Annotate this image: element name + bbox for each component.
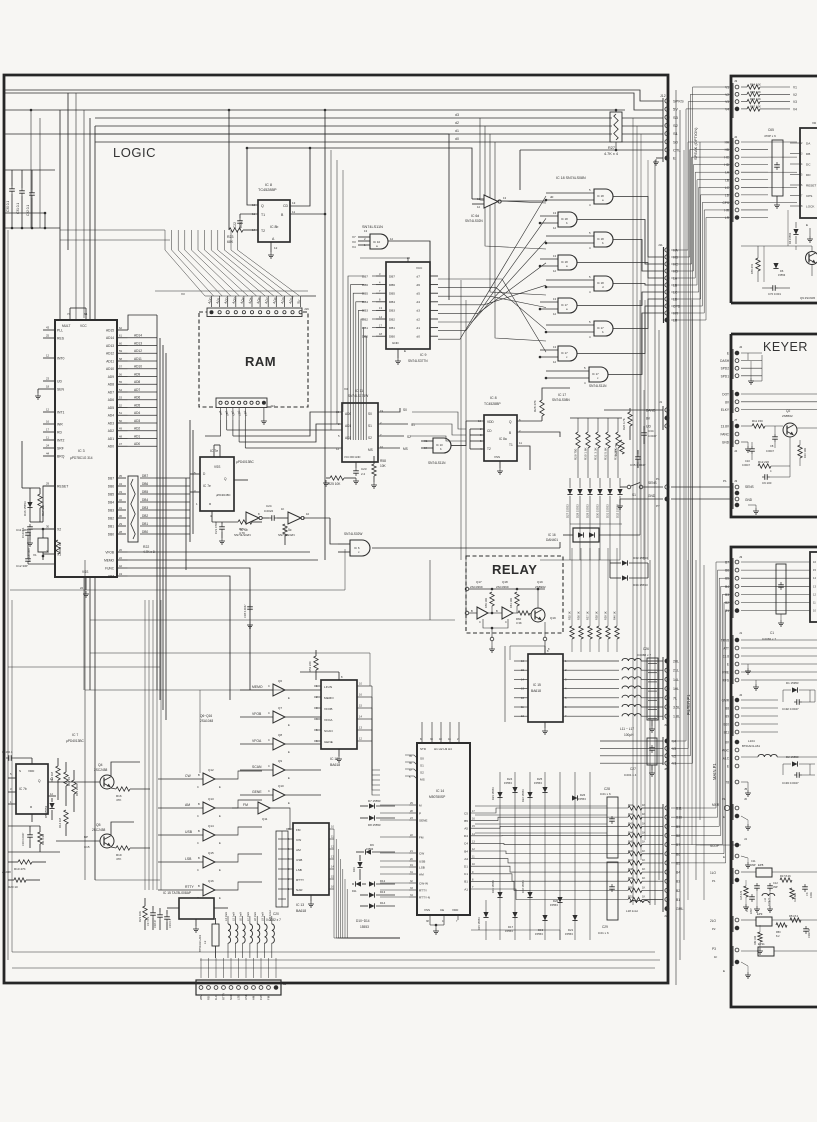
svg-text:E: E	[806, 223, 808, 227]
svg-text:PRE: PRE	[722, 671, 729, 675]
connector pin ALC	[735, 756, 739, 760]
svg-text:V4: V4	[672, 740, 676, 744]
wire SCOP run	[700, 844, 741, 846]
inductor L6 1mH	[243, 924, 246, 943]
svg-text:FM: FM	[243, 803, 248, 807]
wire diode bottom bus	[569, 524, 571, 560]
wire gate inputs	[546, 324, 594, 326]
svg-text:SPEAK (OPTION): SPEAK (OPTION)	[693, 127, 698, 160]
connector J3 pin B6	[665, 852, 669, 856]
ground RAM J17 pin	[263, 408, 265, 418]
svg-text:IC 15 TA78L008AP: IC 15 TA78L008AP	[163, 891, 192, 895]
wire top bus SPKS	[4, 90, 663, 101]
svg-text:39P: 39P	[751, 863, 756, 867]
svg-text:BT01AN1-A61: BT01AN1-A61	[742, 744, 760, 748]
svg-text:C13 0.1: C13 0.1	[2, 750, 13, 754]
wire IC12 pin GENE	[314, 740, 321, 742]
svg-text:S1: S1	[368, 424, 372, 428]
wire vertical x229 to R23	[228, 110, 230, 230]
svg-text:R39 1K: R39 1K	[604, 611, 608, 620]
svg-text:d1: d1	[455, 129, 459, 133]
gate IC 18a	[558, 255, 577, 270]
svg-text:Q6~Q16: Q6~Q16	[200, 714, 212, 718]
wire IC3 pin PLL	[43, 329, 55, 331]
svg-text:E: E	[219, 868, 221, 872]
diode D20 15553	[557, 897, 562, 903]
op IC13 BA618 box	[293, 823, 329, 895]
svg-text:E: E	[288, 696, 290, 700]
wire Q10 output	[285, 794, 321, 796]
wire IC15 left pin	[514, 669, 528, 671]
ground IC8 A	[270, 242, 272, 252]
connector RAM bottom pin	[231, 401, 234, 404]
svg-text:M: M	[419, 803, 422, 807]
svg-text:RTTY: RTTY	[419, 888, 427, 892]
svg-text:AD9: AD9	[108, 375, 114, 379]
wire diode matrix verticals	[499, 772, 501, 940]
wire IC3 pin INT1	[43, 411, 55, 413]
wire IC15 right pin	[563, 706, 619, 708]
svg-text:D1 15953: D1 15953	[786, 681, 799, 685]
ground P3	[741, 962, 748, 966]
svg-text:E: E	[219, 841, 221, 845]
wire S0 to IC8a	[412, 412, 466, 429]
svg-text:1K: 1K	[642, 867, 645, 871]
gate IC10b	[433, 438, 451, 453]
wire gate output	[608, 313, 663, 375]
inductors L11-L17	[622, 658, 641, 661]
svg-text:RTTY: RTTY	[296, 878, 304, 882]
svg-text:VFOA: VFOA	[252, 739, 262, 743]
svg-text:1K: 1K	[642, 849, 645, 853]
wire IC13 pin CW	[286, 838, 293, 840]
diode D34 15553	[622, 575, 628, 580]
svg-text:CW: CW	[296, 838, 301, 842]
svg-text:AD9: AD9	[134, 372, 140, 376]
wire cap bus bottom	[4, 227, 60, 229]
svg-text:L10 1mH: L10 1mH	[268, 910, 272, 921]
svg-text:B11: B11	[676, 807, 682, 811]
wire IC3 pin AD15	[117, 329, 128, 331]
svg-text:SCAN: SCAN	[324, 729, 333, 733]
svg-text:0.0047: 0.0047	[648, 434, 657, 438]
svg-text:C: C	[268, 789, 270, 793]
resistor R29	[577, 418, 579, 432]
svg-text:RTTY-N: RTTY-N	[419, 895, 430, 899]
resistor R39 1K	[607, 548, 609, 626]
svg-text:R46: R46	[628, 849, 633, 853]
wire IC3 pin AD4	[117, 414, 128, 416]
svg-text:22: 22	[80, 586, 84, 590]
wire J2 pin stub	[741, 201, 768, 203]
svg-text:C1B 0.0047: C1B 0.0047	[243, 604, 247, 618]
svg-text:B10: B10	[723, 723, 729, 727]
wire IC3 pin DB0	[117, 533, 126, 535]
svg-text:J2: J2	[734, 135, 738, 139]
connector J12 pin SPKS	[665, 99, 669, 103]
svg-text:IC 17: IC 17	[558, 393, 566, 397]
connector J9 pin 28L	[665, 659, 669, 663]
svg-text:d3: d3	[455, 113, 459, 117]
svg-text:DB5: DB5	[142, 490, 148, 494]
wire IC11 S0 out	[378, 408, 400, 412]
wire crystal nets	[27, 538, 29, 556]
wire IC14 pin LSB	[409, 866, 417, 868]
svg-text:IC 8a: IC 8a	[499, 437, 507, 441]
svg-text:C: C	[268, 764, 270, 768]
svg-text:MS: MS	[420, 778, 425, 782]
wire IC3 pin AD5	[117, 407, 128, 409]
svg-text:D10~D14: D10~D14	[356, 919, 370, 923]
svg-text:AD8: AD8	[108, 383, 114, 387]
ground IC3 VSS	[85, 591, 87, 594]
wire IC14 pin A5	[470, 826, 530, 828]
svg-text:15553: 15553	[505, 929, 513, 933]
svg-text:D23 15553: D23 15553	[491, 787, 495, 800]
svg-text:DB5: DB5	[108, 492, 114, 496]
transistor Q12	[203, 773, 215, 785]
svg-text:R14 1M: R14 1M	[58, 818, 62, 828]
svg-text:0.01 x 6: 0.01 x 6	[600, 792, 611, 796]
svg-text:R15 470: R15 470	[740, 890, 743, 900]
svg-text:E: E	[404, 349, 406, 353]
connector J2 pin	[237, 986, 241, 990]
wire gate inputs	[540, 258, 558, 260]
wire vertical left bus x90	[89, 118, 91, 690]
connector RAM top pin 5V	[299, 311, 302, 314]
svg-text:R97 10K: R97 10K	[750, 104, 761, 108]
wire IC3 pin AD13	[117, 345, 128, 347]
svg-text:11: 11	[292, 210, 295, 214]
board MAIN unit outline	[731, 547, 817, 1007]
wire bus y134	[4, 134, 449, 300]
svg-text:R25 10K: R25 10K	[328, 482, 341, 486]
ground keyer sens	[748, 504, 756, 506]
diode D7 15553	[369, 803, 375, 808]
resistor R30	[587, 418, 589, 432]
svg-text:B: B	[198, 884, 200, 888]
svg-text:Q9 2SC945: Q9 2SC945	[800, 296, 815, 300]
capacitor C8 0.0047	[774, 434, 776, 437]
svg-text:1K: 1K	[642, 885, 645, 889]
svg-text:L3: L3	[203, 940, 207, 944]
capacitor C22 0.001	[239, 218, 241, 221]
wire C24 net	[262, 517, 269, 519]
resistor R59 10K	[490, 592, 494, 606]
wire Q8 output	[285, 743, 321, 745]
svg-text:VCC: VCC	[416, 266, 423, 270]
wire gap vertical extra	[683, 150, 685, 940]
gate IC 17c	[558, 346, 577, 361]
svg-text:CD: CD	[283, 204, 289, 208]
svg-text:C: C	[197, 841, 199, 845]
diode D14 15553	[369, 903, 375, 908]
capacitor C12 39P	[769, 883, 771, 886]
wire IC11 inputs	[227, 429, 342, 431]
wire Q5 base	[56, 840, 100, 842]
svg-text:SRF: SRF	[57, 447, 64, 451]
svg-text:D30 15553: D30 15553	[596, 504, 600, 518]
ground IC14	[435, 928, 437, 931]
ground C65	[776, 196, 778, 202]
svg-text:2SC3399: 2SC3399	[496, 585, 509, 589]
wire gate output	[613, 197, 663, 258]
svg-text:STD: STD	[420, 747, 427, 751]
resistor R18 680	[790, 888, 794, 899]
svg-text:d0: d0	[417, 335, 421, 339]
wire gate input diagonal fan	[438, 196, 546, 339]
svg-text:1K: 1K	[642, 895, 645, 899]
wire a-input fan	[480, 118, 546, 203]
svg-text:15553: 15553	[504, 781, 512, 785]
wire IC14 pin P	[409, 812, 417, 814]
wire IC9 pin DB7	[376, 275, 386, 277]
svg-text:Q15: Q15	[208, 851, 214, 855]
svg-text:C20: C20	[273, 912, 279, 916]
wire RTTY input	[158, 889, 203, 891]
wire bottom bus x12	[12, 951, 240, 953]
svg-text:17: 17	[46, 428, 50, 432]
svg-text:L9 1mH: L9 1mH	[261, 912, 265, 921]
svg-text:INT1: INT1	[57, 411, 64, 415]
gate IC4b SN74LS02N	[246, 512, 259, 524]
svg-text:R53 220: R53 220	[308, 661, 312, 672]
connector J2 pin	[199, 986, 203, 990]
resistor R36 1K	[580, 548, 582, 626]
resistor R15 220K	[72, 780, 76, 794]
svg-text:DB2: DB2	[108, 516, 114, 520]
svg-text:LSB: LSB	[296, 868, 302, 872]
svg-text:Q19: Q19	[537, 580, 543, 584]
svg-text:DB1: DB1	[108, 524, 114, 528]
wire CTL	[520, 149, 663, 151]
inductor L8 1mH	[257, 924, 260, 943]
svg-text:12: 12	[46, 408, 50, 412]
capacitor C10k 0.0047	[751, 446, 753, 449]
svg-text:LC: LC	[725, 186, 730, 190]
connector J3 pin B1	[665, 897, 669, 901]
svg-text:15553: 15553	[366, 847, 374, 851]
svg-text:1K: 1K	[642, 858, 645, 862]
wire J1 pin run	[741, 639, 817, 641]
svg-text:Q14: Q14	[208, 824, 214, 828]
svg-text:B: B	[471, 609, 473, 613]
svg-text:2LO: 2LO	[710, 919, 717, 923]
diode D6 15553	[773, 263, 778, 269]
crystal X1 CSA400MT	[38, 538, 48, 552]
op IC3 uPD78C1G box	[55, 320, 117, 577]
ground 78	[741, 781, 748, 783]
svg-text:NAR: NAR	[229, 994, 233, 1000]
svg-text:S2: S2	[368, 436, 372, 440]
connector J3 pin B2	[735, 601, 739, 605]
svg-text:DB3: DB3	[142, 506, 148, 510]
wire R27 bottom stub	[615, 142, 617, 150]
svg-text:47K: 47K	[116, 798, 121, 802]
svg-text:R11 150: R11 150	[752, 419, 763, 423]
svg-text:225P: 225P	[750, 908, 753, 914]
svg-text:J1: J1	[659, 400, 663, 404]
gate IC10a	[370, 234, 388, 249]
wire x430 vertical	[429, 241, 431, 262]
svg-text:R11 3.3M: R11 3.3M	[41, 834, 45, 845]
connector J12 pin E	[665, 156, 669, 160]
svg-text:R18 1M: R18 1M	[58, 542, 62, 552]
wire IC14 pin AM	[409, 873, 417, 875]
wire Q5 wires	[111, 847, 116, 848]
wire gate output	[577, 292, 663, 306]
wire d1 line	[95, 133, 612, 135]
connector RAM top pin AD7	[267, 311, 270, 314]
svg-text:SENS: SENS	[648, 481, 657, 485]
wire IC13 pin LSB	[286, 868, 293, 870]
svg-text:B3: B3	[676, 880, 680, 884]
resistor R51 8.2	[790, 918, 801, 922]
capacitor C34 0.0047	[643, 430, 645, 433]
svg-text:10K: 10K	[380, 464, 387, 468]
wire Q4 base	[60, 781, 100, 783]
connector J11 pin HB	[665, 255, 669, 259]
wire D33 net	[609, 560, 611, 578]
svg-text:RTTY: RTTY	[185, 885, 195, 889]
wire gate inputs	[540, 349, 558, 351]
svg-text:EP11: EP11	[758, 942, 765, 946]
svg-text:AM: AM	[296, 848, 301, 852]
svg-text:DB7: DB7	[389, 274, 395, 278]
svg-text:DB6: DB6	[108, 484, 114, 488]
ground SCOP	[741, 856, 748, 858]
capacitor C10 0.1	[29, 524, 31, 527]
connector RAM top pin AD5	[250, 311, 253, 314]
svg-text:1K: 1K	[642, 876, 645, 880]
svg-text:D4: D4	[464, 834, 468, 838]
resistor R31	[597, 418, 599, 432]
wire IC14 pin C1	[470, 874, 530, 881]
svg-text:5V: 5V	[673, 107, 678, 112]
svg-text:D29 15553: D29 15553	[586, 504, 590, 518]
inductor L9 1mH	[265, 924, 268, 943]
svg-text:AD12: AD12	[134, 349, 142, 353]
wire L18 1mH	[630, 900, 649, 903]
wire HA-LR gap fan	[671, 142, 731, 250]
svg-text:EP9: EP9	[757, 912, 763, 916]
svg-text:DB1: DB1	[389, 326, 395, 330]
svg-text:R18 680: R18 680	[794, 892, 797, 902]
relay box	[466, 556, 563, 633]
diode D5 15553	[49, 803, 54, 809]
svg-text:R10 10K: R10 10K	[803, 448, 807, 458]
wire 1LO run	[741, 871, 756, 873]
svg-text:15553: 15553	[360, 925, 369, 929]
svg-text:0.15µH: 0.15µH	[768, 898, 771, 906]
wire IC15 right pin	[563, 660, 619, 662]
wire Q9 output	[285, 769, 321, 771]
wire IC15 right pin	[563, 697, 619, 699]
svg-text:TC4528BP: TC4528BP	[484, 402, 501, 406]
svg-text:T1: T1	[509, 443, 513, 447]
svg-text:B: B	[198, 773, 200, 777]
svg-text:B8: B8	[725, 707, 729, 711]
svg-text:AD0: AD0	[108, 445, 114, 449]
svg-text:D31 15553: D31 15553	[606, 504, 610, 518]
svg-text:B2: B2	[676, 889, 680, 893]
svg-text:C30 0.1: C30 0.1	[6, 201, 10, 212]
svg-text:B6: B6	[725, 569, 729, 573]
diode D31 15553	[607, 489, 612, 495]
wire IC3 pin DB4	[117, 501, 126, 503]
svg-text:AD12: AD12	[106, 352, 114, 356]
svg-text:H1 H2 H3 H4: H1 H2 H3 H4	[434, 747, 452, 751]
svg-text:MULT: MULT	[62, 324, 70, 328]
svg-text:FUNC: FUNC	[105, 566, 115, 570]
svg-text:C10: C10	[745, 459, 750, 463]
capacitor C30 0.1	[11, 186, 13, 189]
resistor R27 4.7K x4	[610, 112, 622, 142]
svg-text:P1: P1	[656, 477, 660, 481]
svg-text:LA: LA	[673, 277, 678, 281]
svg-text:IC 11: IC 11	[355, 389, 363, 393]
svg-text:RELAY: RELAY	[492, 562, 537, 577]
svg-text:4.7K x 4: 4.7K x 4	[604, 152, 618, 156]
wire IC13 pin FM	[286, 828, 293, 830]
resistor R12 1M	[56, 766, 60, 780]
svg-text:R52 180: R52 180	[754, 935, 757, 945]
ground at J12 E	[656, 157, 663, 159]
svg-text:HB: HB	[725, 148, 729, 152]
svg-text:C193 0.0047: C193 0.0047	[782, 781, 799, 785]
connector J3 pin B9	[665, 824, 669, 828]
capacitor C23 2.2	[355, 468, 357, 471]
svg-text:100µH: 100µH	[624, 733, 634, 737]
svg-text:D27 15553: D27 15553	[566, 504, 570, 518]
wire IC pin stub	[790, 174, 800, 176]
wire IC9 DB bus verticals	[348, 276, 364, 440]
connector J1 pin PRE	[735, 670, 739, 674]
svg-text:0.01 x 6: 0.01 x 6	[598, 931, 609, 935]
svg-text:15553: 15553	[534, 781, 542, 785]
connector J2 pin HB	[735, 148, 739, 152]
wire SCAN input	[240, 769, 273, 771]
connector J7 pin FANC	[735, 432, 739, 436]
connector J1 pin TRV8	[735, 638, 739, 642]
wire IC3 pin AD11	[117, 360, 128, 362]
svg-text:VCC: VCC	[80, 324, 87, 328]
svg-text:HD: HD	[724, 163, 729, 167]
resistor R55 47K	[756, 258, 760, 271]
connector J7 pin GND	[735, 440, 739, 444]
svg-text:R49: R49	[628, 876, 633, 880]
wire V1-V4 gap fan	[671, 109, 731, 741]
capacitor C20 0.0082x7	[276, 831, 288, 907]
svg-text:X7: X7	[352, 235, 356, 239]
svg-text:R47: R47	[628, 858, 633, 862]
svg-text:AD2: AD2	[108, 429, 114, 433]
board LOGIC unit outline	[4, 75, 668, 983]
resistor R23 68K	[229, 228, 243, 232]
wire IC15 left pin	[514, 678, 528, 680]
svg-text:AD11: AD11	[134, 357, 142, 361]
svg-text:VDD: VDD	[452, 908, 459, 912]
diode D23 15553	[497, 792, 502, 798]
wire J2 pin stub	[741, 149, 768, 151]
svg-text:FANC: FANC	[720, 433, 729, 437]
svg-text:R26 4.7K: R26 4.7K	[622, 418, 626, 430]
wire IC14 pin RTTY-N	[409, 896, 417, 898]
wire J2 pin stub	[741, 194, 768, 196]
inductor L12	[762, 893, 775, 896]
svg-text:BA618: BA618	[330, 763, 340, 767]
diode D11 15553	[356, 881, 362, 886]
